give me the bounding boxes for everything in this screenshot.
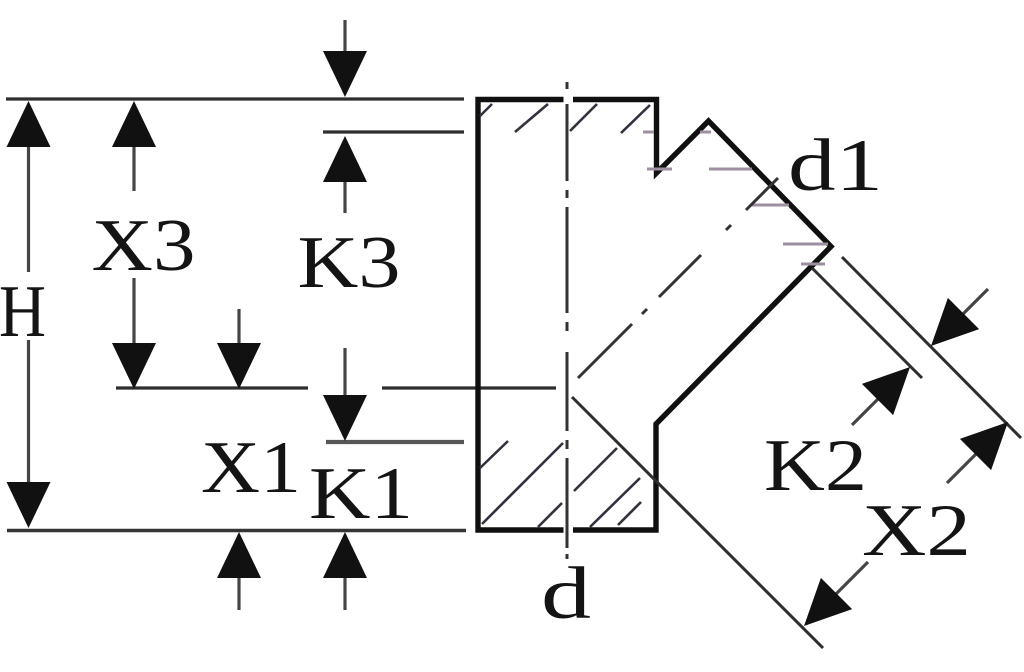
reference line mid right part [382,386,556,389]
dimension X1 arrow up [217,532,261,578]
hatch top band [480,104,650,133]
reference line mid (branch centre datum) left part [116,386,308,389]
dimension X3 arrow down [112,343,156,389]
svg-text:d: d [541,553,591,635]
dimension K3 arrow up [323,136,367,182]
svg-text:X2: X2 [862,490,971,572]
dimension K2 arrow up-right [862,367,910,415]
dimension X1 arrow down [217,343,261,389]
svg-text:X3: X3 [92,205,196,287]
branch axis centreline 45deg [578,178,778,378]
branch end face extension line [842,257,1021,438]
dimension K3 arrow down [323,51,367,97]
svg-text:K1: K1 [309,453,413,535]
dimension K1 arrow up [323,532,367,578]
dimension K2 stem lower [852,399,878,425]
dimension H stem upper [27,145,30,272]
dimension X3 stem upper [132,145,135,191]
dimension X1 stem lower [237,576,240,610]
white gap in bottom edge at centreline [564,526,574,536]
reference line K1 socket depth [326,440,464,444]
reference line bottom datum [7,529,466,533]
branch socket depth line [812,268,922,378]
dimension H stem lower [27,340,30,484]
svg-text:H: H [0,271,46,353]
dimension K3 stem upper [343,20,346,53]
dimension K3 stem lower [343,180,346,213]
dimension K2 arrow down-left [931,298,979,346]
dimension K1 stem lower [343,576,346,610]
centre perpendicular reference line [572,397,823,648]
dimension X3 arrow up [112,101,156,147]
svg-text:d1: d1 [788,125,883,207]
svg-text:K3: K3 [298,222,401,304]
fitting body outline [478,100,831,531]
dimension X1 stem upper [237,309,240,345]
reference line top (H/X3/K3 upper datum) [6,97,464,100]
dimension H arrow down [7,482,51,528]
white gap in top edge at centreline [564,95,574,105]
dimension X2 arrow up-right [960,422,1008,470]
dimension K1 stem upper [343,348,346,397]
hatch bottom band [480,441,641,527]
svg-text:K2: K2 [764,425,867,507]
dimension X2 arrow down-left [804,578,852,626]
reference line K3 socket depth [323,130,464,133]
dimension X3 stem lower [132,278,135,345]
dimension K1 arrow down [323,395,367,441]
dimension H arrow up [7,101,51,147]
dimension X2 stem upper [947,454,976,483]
svg-text:X1: X1 [201,427,301,509]
dimension K2 stem upper [963,289,988,314]
vertical centreline d axis [566,82,569,559]
hatch light ticks branch [643,132,828,264]
dimension X2 stem lower [836,562,868,594]
